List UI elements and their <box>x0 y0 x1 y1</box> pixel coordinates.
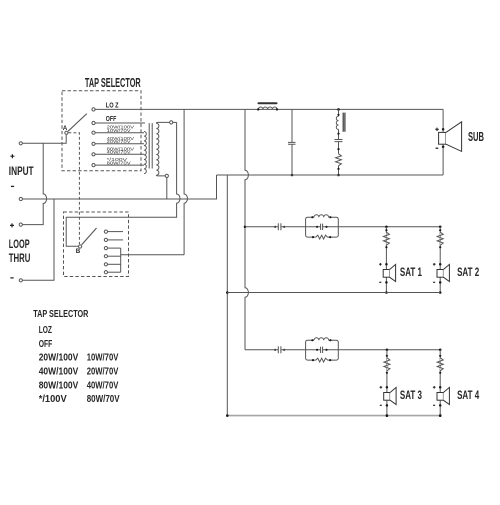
node C1 bottom junction <box>291 174 294 177</box>
node branch bottom SAT 1 <box>385 291 388 294</box>
wire A pivot to INPUT+ <box>23 135 67 144</box>
inductor (trap) <box>314 338 329 340</box>
capacitor series (dc block) <box>278 346 281 353</box>
svg-text:40W/70V: 40W/70V <box>87 380 119 391</box>
speaker SAT 3 driver box <box>384 393 390 401</box>
node tap contact 4 <box>92 164 95 167</box>
transformer T1 primary winding <box>144 132 146 174</box>
svg-text:10W/70V: 10W/70V <box>87 353 119 364</box>
label + (SAT 2) <box>433 263 436 266</box>
wire OFF line <box>95 122 145 124</box>
speaker SUB driver box <box>439 132 446 144</box>
svg-text:TAP SELECTOR: TAP SELECTOR <box>85 76 141 90</box>
wire branch SAT 3 <box>386 350 388 416</box>
node branch top SAT 2 <box>439 226 442 229</box>
label + (loop) <box>10 223 14 227</box>
label + (SAT 1) <box>379 263 382 266</box>
wire LO-Z rail down to B bus (with hump) <box>184 109 187 254</box>
resistor SAT 1 branch <box>383 232 389 245</box>
label + (SUB) <box>435 128 438 131</box>
mechanical linkage A-B (dashed) <box>69 133 80 245</box>
wire top rail (LO Z to SUB) <box>95 108 443 110</box>
wire secondary top lead <box>156 121 169 124</box>
svg-text:20W/100V: 20W/100V <box>39 353 79 364</box>
transformer T1 secondary winding <box>156 123 159 175</box>
svg-text:40W/70V: 40W/70V <box>107 150 132 155</box>
svg-text:*/100V: */100V <box>39 394 67 405</box>
inductor (trap) <box>314 215 329 217</box>
wire secondary top terminal to vertical <box>173 121 177 123</box>
node LO Z contact <box>92 108 95 111</box>
speaker SAT 1 driver box <box>383 270 389 278</box>
wire mid return rail <box>227 292 440 294</box>
node B contact 6 <box>104 271 107 274</box>
node mid feed junction <box>244 226 247 229</box>
node bottom return left junction <box>226 414 229 417</box>
wire L2 to C2 <box>338 129 340 139</box>
speaker SAT 2 cone <box>443 264 449 281</box>
wire feed segments <box>245 226 440 228</box>
label - (loop) <box>10 277 13 279</box>
node RLC top junction <box>337 108 340 111</box>
wire B contact 5 line <box>108 263 121 265</box>
node branch bottom SAT 4 <box>439 414 442 417</box>
speaker SAT 4 driver box <box>437 393 443 401</box>
svg-text:TAP SELECTOR: TAP SELECTOR <box>33 309 89 320</box>
switch arm B <box>82 228 97 245</box>
speaker SUB cone <box>446 122 462 152</box>
inductor L1 <box>258 107 277 109</box>
wire branch SAT 1 <box>385 227 387 293</box>
inductor L2 core bar <box>343 113 345 132</box>
node secondary bottom terminal <box>165 174 168 177</box>
label - (input) <box>11 185 14 187</box>
svg-text:80W/70V: 80W/70V <box>107 160 132 165</box>
svg-text:20W/70V: 20W/70V <box>107 139 132 144</box>
svg-text:LOOP: LOOP <box>9 237 30 251</box>
wire B contact bus <box>120 248 122 272</box>
node branch top SAT 3 <box>386 349 389 352</box>
svg-text:SAT 3: SAT 3 <box>400 388 422 402</box>
wire B contact 3 line <box>108 247 121 249</box>
wire B bus feed to LO-Z rail vertical <box>121 254 184 256</box>
wire INPUT- to sub return <box>23 175 217 199</box>
label + (SAT 4) <box>433 386 436 389</box>
wire C2 to R1 <box>338 142 340 154</box>
node secondary top terminal <box>170 121 173 124</box>
selector B dashed box <box>64 212 129 277</box>
node INPUT + terminal <box>19 142 22 145</box>
node branch top SAT 4 <box>439 349 442 352</box>
svg-text:INPUT: INPUT <box>9 164 34 178</box>
node A pivot <box>65 131 68 134</box>
wire B contact 6 line <box>108 271 121 273</box>
resistor SAT 2 branch <box>437 232 443 245</box>
transformer T1 core <box>149 123 152 168</box>
svg-text:40W/100V: 40W/100V <box>39 367 79 378</box>
node branch bottom SAT 3 <box>386 414 389 417</box>
capacitor C2 <box>335 140 343 142</box>
node branch bottom SAT 2 <box>439 291 442 294</box>
wire tap line 1 <box>95 132 144 134</box>
node tap contact 1 <box>92 131 95 134</box>
node B contact 3 <box>104 247 107 250</box>
label + (input) <box>10 154 14 158</box>
resistor (trap) <box>316 358 328 362</box>
node OFF contact <box>92 121 95 124</box>
svg-text:OFF: OFF <box>39 339 53 350</box>
svg-text:SAT 2: SAT 2 <box>457 265 479 279</box>
svg-text:SAT 4: SAT 4 <box>457 388 479 402</box>
node B contact 2 <box>104 238 107 241</box>
svg-text:LO Z: LO Z <box>106 102 119 109</box>
wire tap line 2 <box>95 143 144 145</box>
node mid return left junction <box>226 291 229 294</box>
wire branch SAT 4 <box>439 350 441 416</box>
wire B contact 4 line <box>108 255 121 257</box>
node B contact 5 <box>104 263 107 266</box>
wire RLC top <box>338 109 340 116</box>
svg-text:80W/70V: 80W/70V <box>87 394 120 405</box>
wire bus from sub return to bottom return <box>226 175 228 416</box>
wire LOOP+ riser with hump over INPUT- <box>23 143 47 224</box>
node tap contact 2 <box>92 142 95 145</box>
capacitor series (dc block) <box>278 223 281 230</box>
wire LOOP- riser <box>23 199 54 280</box>
parallel RLC trap box <box>306 217 314 227</box>
wire feed segments <box>245 349 440 351</box>
selector A dashed box <box>62 91 141 171</box>
wire R1 to rail <box>338 166 340 175</box>
svg-text:LOZ: LOZ <box>39 325 52 336</box>
capacitor (trap) <box>321 347 323 353</box>
inductor L1 core bar <box>258 102 278 104</box>
wire branch SAT 2 <box>439 227 441 293</box>
node B pivot <box>79 245 82 248</box>
svg-text:SAT 1: SAT 1 <box>400 265 422 279</box>
node B contact 1 <box>104 230 107 233</box>
wire B contact 2 line <box>108 239 123 241</box>
wire bus from top rail to SAT feeds (with humps) <box>245 109 248 349</box>
switch arm A <box>68 114 87 132</box>
node branch top SAT 1 <box>385 226 388 229</box>
wire bottom return rail (grey) <box>227 415 440 417</box>
wire tap line 4 <box>95 164 144 166</box>
svg-text:A: A <box>63 125 68 132</box>
wire secondary bottom to input-minus line <box>166 178 168 199</box>
wire bottom rail (SUB return) <box>217 174 444 176</box>
wire secondary-top feed to B pivot <box>66 122 180 246</box>
parallel RLC trap box <box>306 340 314 350</box>
wire secondary bottom lead <box>156 174 165 177</box>
resistor SAT 3 branch <box>384 358 390 371</box>
speaker SAT 3 cone <box>390 387 396 404</box>
svg-text:THRU: THRU <box>9 251 31 265</box>
label - (SAT 4) <box>433 404 435 406</box>
wire B contact 1 line <box>108 231 123 233</box>
node tap contact 3 <box>92 153 95 156</box>
label - (SAT 2) <box>433 281 435 283</box>
wire SUB branch vertical <box>442 109 444 175</box>
node RLC bottom junction <box>337 174 340 177</box>
speaker SAT 4 cone <box>443 387 449 404</box>
node LOOP - terminal <box>19 279 22 282</box>
resistor SAT 4 branch <box>437 358 443 371</box>
svg-text:80W/100V: 80W/100V <box>39 380 79 391</box>
label - (SUB) <box>436 147 439 149</box>
svg-text:10W/70V: 10W/70V <box>107 128 132 133</box>
svg-text:20W/70V: 20W/70V <box>87 367 119 378</box>
capacitor (trap) <box>321 224 323 230</box>
svg-text:SUB: SUB <box>468 130 484 144</box>
resistor (trap) <box>316 235 328 239</box>
node B contact 4 <box>104 255 107 258</box>
speaker SAT 2 driver box <box>437 270 443 278</box>
speaker SAT 1 cone <box>390 264 396 281</box>
label - (SAT 3) <box>380 404 382 406</box>
node LOOP + terminal <box>19 223 22 226</box>
wire tap line 3 <box>95 153 144 155</box>
label - (SAT 1) <box>379 281 381 283</box>
svg-text:B: B <box>76 248 81 255</box>
inductor L2 (shunt RLC) <box>336 116 338 129</box>
label + (SAT 3) <box>380 386 383 389</box>
resistor R1 <box>336 154 342 166</box>
node INPUT - terminal <box>19 197 22 200</box>
capacitor C1 (shunt) <box>288 109 296 175</box>
svg-text:OFF: OFF <box>106 116 117 123</box>
